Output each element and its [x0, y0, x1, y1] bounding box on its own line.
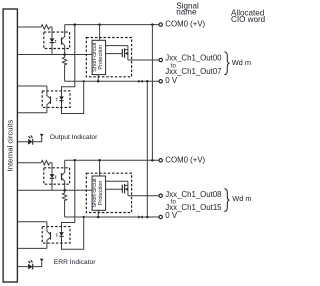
svg-text:COM0 (+V): COM0 (+V)	[165, 20, 205, 29]
wire protection return to 0V	[97, 75, 99, 82]
svg-text:Jxx_Ch1_Out08: Jxx_Ch1_Out08	[165, 190, 222, 199]
junction dot gate node	[63, 189, 66, 192]
junction dot +V / opto2 feed	[74, 23, 77, 26]
junction dot gate node	[63, 53, 66, 56]
junction dot +V / opto6 feed	[74, 159, 77, 162]
junction dot protection return / 0V	[97, 80, 100, 83]
junction dot +V / protection feed	[98, 159, 101, 162]
resistor R1	[41, 25, 50, 30]
optocoupler PC2 dashed box	[42, 91, 70, 108]
wire +V to short-circuit protection	[99, 25, 101, 41]
wire LED D6 cathode return	[62, 217, 84, 249]
internal circuits block	[3, 9, 17, 282]
terminal COM0 (+V)	[159, 23, 162, 26]
svg-text:Protection: Protection	[98, 181, 104, 206]
wire 0V rail to 0V terminal	[65, 216, 159, 218]
wire internal circuits to Output Indicator	[18, 141, 29, 143]
wire internal circuits to ERR Indicator	[18, 266, 29, 268]
terminal Out00-Out07	[159, 58, 162, 61]
svg-text:COM0 (+V): COM0 (+V)	[165, 155, 205, 164]
phototransistor Q2 (optocoupler PC2)	[47, 86, 51, 113]
wire internal return / gate drive	[18, 54, 93, 56]
wire 0V rail to 0V terminal	[65, 80, 159, 82]
svg-text:Protection: Protection	[98, 45, 104, 70]
optocoupler PC6 dashed box	[42, 227, 70, 244]
wire output to terminal	[128, 59, 159, 61]
svg-text:AllocatedCIO word: AllocatedCIO word	[231, 8, 265, 24]
junction dot 0V bus	[146, 80, 149, 83]
short-circuit protection dashed boundary	[86, 173, 131, 212]
wire ERR Indicator to supply stub	[33, 261, 42, 266]
wire R5-to-LED	[50, 163, 52, 174]
LED D30 (Output Indicator)	[28, 136, 33, 145]
svg-text:Short-circuit: Short-circuit	[92, 178, 98, 208]
wire R1-to-LED	[50, 27, 52, 38]
wire internal-to-R1	[18, 26, 42, 28]
wire Q6 collector to internal circuits	[18, 221, 47, 223]
phototransistor Q1 (optocoupler PC1)	[62, 25, 65, 55]
svg-text:Jxx_Ch1_Out07: Jxx_Ch1_Out07	[165, 67, 221, 76]
junction dot +V / protection feed	[98, 23, 101, 26]
wire Q6 emitter to internal circuits	[18, 247, 47, 249]
short-circuit protection dashed boundary	[86, 38, 131, 77]
terminal 0V	[159, 215, 162, 218]
LED D6 (optocoupler PC6 emitter)	[56, 232, 64, 237]
wire Q2 collector to internal circuits	[18, 85, 47, 87]
wire +V rail to COM terminal	[65, 159, 159, 161]
svg-text:0 V: 0 V	[165, 76, 178, 85]
wire Output Indicator to supply stub	[33, 136, 42, 141]
wire +V to LED D2 anode	[62, 25, 75, 97]
terminal 0V	[159, 80, 162, 83]
brace Wd m upper	[224, 52, 229, 75]
wire LED D1 cathode	[51, 43, 53, 55]
svg-text:Signalname: Signalname	[176, 1, 199, 16]
optocoupler PC5 dashed box	[44, 168, 70, 184]
svg-text:0 V: 0 V	[165, 211, 178, 220]
junction dot protection return / 0V	[97, 216, 100, 219]
short-circuit protection block U5	[92, 176, 106, 210]
wire +V to LED D6 anode	[62, 160, 75, 232]
junction dot LED D6 return / 0V	[83, 216, 85, 218]
wire LED D5 cathode	[51, 178, 53, 190]
wire internal-to-R5	[18, 162, 42, 164]
MOSFET Q7 (output transistor)	[106, 181, 128, 195]
wire +V rail to COM terminal	[65, 24, 159, 26]
resistor R15 (gate pull-down)	[63, 190, 67, 217]
terminal COM0 (+V)	[159, 159, 162, 162]
resistor R11 (gate pull-down)	[63, 55, 67, 82]
wire Q2 emitter to internal circuits	[18, 112, 47, 114]
brace Wd m lower	[224, 189, 229, 212]
svg-text:Wd m: Wd m	[232, 58, 251, 67]
diode D21 (inline on 0V line)	[138, 80, 142, 83]
junction dot +V bus	[151, 23, 154, 26]
wire 0V bus top to bottom	[146, 81, 148, 217]
short-circuit protection block U1	[92, 40, 106, 74]
resistor R5	[41, 160, 50, 165]
svg-text:Output Indicator: Output Indicator	[50, 134, 98, 141]
wire output to terminal	[128, 195, 159, 197]
LED D5 (optocoupler PC5 emitter)	[50, 174, 57, 179]
svg-text:Jxx_Ch1_Out00: Jxx_Ch1_Out00	[165, 53, 222, 62]
svg-text:Wd m: Wd m	[232, 194, 251, 203]
svg-text:Internal circuits: Internal circuits	[5, 120, 14, 172]
wire protection return to 0V	[97, 210, 99, 217]
wire +V to short-circuit protection	[99, 160, 101, 176]
wire LED D2 cathode return	[62, 81, 84, 113]
diode D25 (inline on 0V line)	[138, 215, 142, 218]
LED D1 (optocoupler PC1 emitter)	[50, 38, 57, 43]
junction dot LED D2 return / 0V	[83, 80, 85, 82]
phototransistor Q5 (optocoupler PC5)	[62, 160, 65, 190]
junction dot 0V bus	[146, 216, 149, 219]
optocoupler PC1 dashed box	[44, 32, 70, 48]
LED D2 (optocoupler PC2 emitter)	[56, 96, 64, 101]
supply arrowhead for ERR Indicator	[40, 259, 44, 262]
supply arrowhead for Output Indicator	[40, 134, 44, 137]
wire +V bus COM0 top to COM0 bottom	[151, 25, 153, 161]
wire internal return / gate drive	[18, 189, 93, 191]
junction dot +V bus	[151, 159, 154, 162]
MOSFET Q3 (output transistor)	[106, 46, 128, 60]
LED D31 (ERR Indicator)	[28, 260, 33, 269]
phototransistor Q6 (optocoupler PC6)	[47, 222, 51, 249]
terminal Out08-Out15	[159, 194, 162, 197]
svg-text:Short-circuit: Short-circuit	[92, 42, 98, 72]
svg-text:ERR Indicator: ERR Indicator	[54, 259, 96, 266]
